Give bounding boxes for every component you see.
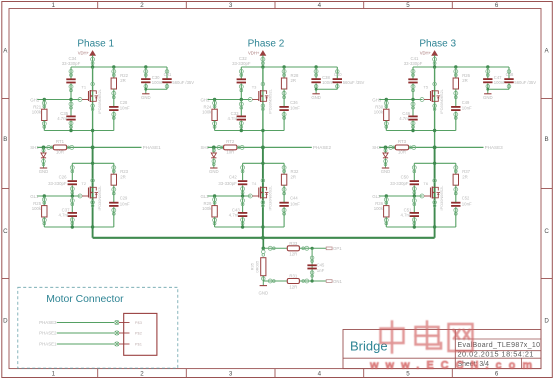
svg-text:P$3: P$3 bbox=[135, 320, 143, 325]
svg-text:2R: 2R bbox=[291, 78, 297, 83]
svg-text:33-330pF: 33-330pF bbox=[232, 61, 251, 66]
connector X1 body bbox=[124, 313, 157, 355]
wire main vertical rail (Phase 3) bbox=[434, 67, 436, 238]
wire low rail (Phase 3) bbox=[414, 162, 456, 165]
svg-text:C: C bbox=[544, 228, 549, 235]
svg-text:C26: C26 bbox=[59, 175, 67, 180]
svg-text:33-330pF: 33-330pF bbox=[390, 181, 409, 186]
svg-text:C28: C28 bbox=[120, 100, 128, 105]
svg-text:6: 6 bbox=[495, 2, 499, 9]
diode D2 (clamp) bbox=[211, 147, 216, 167]
title block row lines bbox=[343, 339, 541, 369]
svg-text:2R: 2R bbox=[120, 174, 126, 179]
wire top rail (Phase 2) bbox=[241, 65, 337, 68]
wire gate GL1 bbox=[37, 194, 82, 198]
svg-text:2R: 2R bbox=[462, 78, 468, 83]
svg-text:T4: T4 bbox=[252, 181, 257, 186]
capacitor C26 33-330pF bbox=[48, 163, 77, 196]
capacitor C46 4.7nF bbox=[399, 100, 417, 131]
svg-text:Phase 3: Phase 3 bbox=[419, 39, 456, 50]
wire PHASE1 to connector bbox=[57, 342, 130, 346]
svg-text:OP1: OP1 bbox=[333, 246, 342, 251]
wire cap ground link (Phase 2) bbox=[315, 88, 338, 91]
frame row ticks bbox=[2, 99, 553, 279]
svg-text:100k: 100k bbox=[32, 206, 42, 211]
svg-text:10nF: 10nF bbox=[120, 201, 130, 206]
svg-text:PHASE3: PHASE3 bbox=[39, 320, 57, 325]
svg-text:100k: 100k bbox=[202, 109, 212, 114]
capacitor C40 560uF/35V bbox=[333, 67, 365, 89]
ground GND (shunt) bbox=[259, 286, 269, 296]
title block box bbox=[343, 330, 541, 369]
capacitor C49 10nF bbox=[451, 89, 472, 131]
svg-text:4.7nF: 4.7nF bbox=[59, 213, 70, 218]
svg-text:2R: 2R bbox=[462, 174, 468, 179]
capacitor C52 10nF bbox=[451, 185, 472, 227]
svg-text:4: 4 bbox=[318, 2, 322, 9]
ground GND (bulk caps Phase 2) bbox=[311, 89, 321, 100]
svg-text:12R: 12R bbox=[289, 284, 297, 289]
svg-text:4.7nF: 4.7nF bbox=[229, 213, 240, 218]
capacitor C42 33-330pF bbox=[218, 163, 247, 196]
svg-text:C40: C40 bbox=[334, 72, 342, 77]
capacitor C44 10nF bbox=[279, 185, 300, 227]
svg-text:33-330pF: 33-330pF bbox=[48, 181, 67, 186]
transistor T6 (low-side MOSFET) bbox=[423, 179, 444, 211]
wire PHASE2 net bbox=[208, 146, 312, 150]
svg-text:RT3: RT3 bbox=[398, 139, 407, 144]
wire source line (Phase 2 high) bbox=[215, 129, 285, 132]
frame column labels bbox=[52, 2, 499, 377]
wire gate GH3 bbox=[379, 98, 424, 102]
resistor R26 2R bbox=[453, 67, 471, 99]
group box Motor Connector (dashed) bbox=[18, 287, 178, 368]
resistor R33 12R bbox=[287, 241, 299, 257]
wire sense top branch bbox=[263, 246, 326, 250]
svg-text:IPD30N06S2L: IPD30N06S2L bbox=[439, 88, 444, 114]
svg-text:IPD30N06S2L: IPD30N06S2L bbox=[97, 88, 102, 114]
svg-text:2: 2 bbox=[140, 2, 144, 9]
svg-text:C50: C50 bbox=[401, 175, 409, 180]
svg-text:www.ECCN.com: www.ECCN.com bbox=[369, 360, 539, 372]
resistor RT3 10R bbox=[389, 139, 416, 154]
resistor R35 shunt 0R005 bbox=[250, 250, 266, 280]
svg-text:560uF /35V: 560uF /35V bbox=[172, 80, 194, 85]
title block divider vertical bbox=[454, 330, 456, 369]
svg-text:T3: T3 bbox=[252, 84, 257, 89]
svg-text:0R005: 0R005 bbox=[254, 260, 259, 273]
svg-text:GND: GND bbox=[381, 169, 391, 174]
resistor RT1 10R bbox=[47, 139, 74, 154]
svg-text:1: 1 bbox=[52, 370, 56, 377]
svg-text:1: 1 bbox=[52, 2, 56, 9]
wire source line (Phase 3 high) bbox=[386, 129, 456, 132]
terminal OP1 bbox=[326, 246, 342, 251]
capacitor C36 10nF bbox=[279, 89, 300, 131]
svg-text:12R: 12R bbox=[289, 252, 297, 257]
capacitor C48 560uF/35V bbox=[504, 67, 536, 89]
svg-text:4: 4 bbox=[318, 370, 322, 377]
transistor T1 (high-side MOSFET) bbox=[81, 82, 102, 114]
svg-text:IPD30N06S2L: IPD30N06S2L bbox=[439, 185, 444, 211]
wire gate GH2 bbox=[208, 98, 253, 102]
wire PHASE3 to connector bbox=[57, 320, 130, 324]
wire source line (Phase 3 low) bbox=[386, 225, 456, 228]
capacitor C28 10nF bbox=[109, 89, 130, 131]
svg-text:RT1: RT1 bbox=[56, 139, 65, 144]
capacitor C30 100nF bbox=[141, 67, 164, 89]
ground GND (diode Phase 1) bbox=[40, 167, 47, 169]
svg-text:5: 5 bbox=[406, 2, 410, 9]
svg-text:10nF: 10nF bbox=[462, 106, 472, 111]
wire low rail (Phase 2) bbox=[243, 162, 285, 165]
svg-text:C: C bbox=[3, 228, 8, 235]
svg-text:1nF: 1nF bbox=[317, 268, 325, 273]
svg-text:GND: GND bbox=[141, 95, 151, 100]
wire sense mid branch bbox=[311, 248, 313, 281]
wire gate GL2 bbox=[208, 194, 253, 198]
supply VDH+ (Phase 2) bbox=[248, 51, 266, 67]
svg-text:100k: 100k bbox=[374, 109, 384, 114]
svg-text:100nF: 100nF bbox=[152, 80, 164, 85]
wire source line (Phase 2 low) bbox=[215, 225, 285, 228]
svg-text:T2: T2 bbox=[81, 181, 86, 186]
resistor RT2 10R bbox=[217, 139, 244, 154]
wire cap ground link (Phase 3) bbox=[486, 88, 509, 91]
svg-text:D: D bbox=[3, 318, 8, 325]
svg-text:C45: C45 bbox=[317, 262, 325, 267]
wire PHASE2 to connector bbox=[57, 331, 130, 335]
supply VDH+ (Phase 3) bbox=[420, 51, 438, 67]
svg-text:3: 3 bbox=[229, 2, 233, 9]
wire main vertical rail (Phase 1) bbox=[92, 67, 94, 238]
svg-text:C31: C31 bbox=[164, 72, 172, 77]
frame row labels bbox=[3, 48, 549, 325]
svg-text:4.7nF: 4.7nF bbox=[401, 213, 412, 218]
svg-text:10nF: 10nF bbox=[290, 201, 300, 206]
svg-text:PHASE1: PHASE1 bbox=[39, 342, 57, 347]
svg-text:R33: R33 bbox=[289, 241, 297, 246]
wire gate GL3 bbox=[379, 194, 424, 198]
resistor R37 2R bbox=[453, 163, 471, 195]
junction bus / phase2 bbox=[261, 236, 265, 240]
svg-text:T6: T6 bbox=[423, 181, 428, 186]
svg-text:10nF: 10nF bbox=[290, 106, 300, 111]
svg-text:10R: 10R bbox=[226, 149, 234, 154]
transistor T4 (low-side MOSFET) bbox=[252, 179, 273, 211]
svg-text:T1: T1 bbox=[81, 84, 86, 89]
capacitor C37 4.7nF bbox=[59, 196, 78, 227]
svg-text:RT2: RT2 bbox=[226, 139, 235, 144]
svg-text:Motor Connector: Motor Connector bbox=[46, 294, 124, 305]
svg-text:C44: C44 bbox=[290, 196, 298, 201]
wire main vertical rail (Phase 2) bbox=[262, 67, 264, 238]
svg-text:GND: GND bbox=[259, 291, 269, 296]
svg-text:IPD30N06S2L: IPD30N06S2L bbox=[267, 185, 272, 211]
svg-text:3: 3 bbox=[229, 370, 233, 377]
svg-text:C29: C29 bbox=[120, 196, 128, 201]
svg-text:Phase 1: Phase 1 bbox=[77, 39, 114, 50]
ground GND (diode Phase 2) bbox=[210, 167, 217, 169]
capacitor C31 560uF/35V bbox=[162, 67, 194, 89]
svg-text:10R: 10R bbox=[56, 149, 64, 154]
svg-text:33-330pF: 33-330pF bbox=[62, 61, 81, 66]
svg-text:PHASE2: PHASE2 bbox=[39, 331, 57, 336]
resistor R25 100k bbox=[32, 196, 47, 227]
wire source line (Phase 1 high) bbox=[44, 129, 114, 132]
svg-text:ON1: ON1 bbox=[333, 279, 342, 284]
svg-text:C36: C36 bbox=[290, 100, 298, 105]
svg-text:D: D bbox=[544, 318, 549, 325]
svg-text:B: B bbox=[3, 136, 7, 143]
resistor R31 12R bbox=[287, 274, 299, 290]
capacitor C32 33-330pF bbox=[232, 56, 251, 99]
capacitor C43 4.7nF bbox=[229, 196, 247, 227]
resistor R21 100k bbox=[32, 100, 47, 131]
resistor R32 2R bbox=[281, 163, 299, 195]
svg-text:GND: GND bbox=[209, 169, 219, 174]
svg-text:33-330pF: 33-330pF bbox=[404, 61, 423, 66]
svg-text:10R: 10R bbox=[398, 149, 406, 154]
svg-text:IPD30N06S2L: IPD30N06S2L bbox=[267, 88, 272, 114]
svg-text:4.7nF: 4.7nF bbox=[228, 116, 239, 121]
transistor T5 (high-side MOSFET) bbox=[423, 82, 444, 114]
wire PHASE3 net bbox=[379, 146, 483, 150]
svg-text:100k: 100k bbox=[202, 206, 212, 211]
terminal ON1 bbox=[326, 279, 342, 284]
wire PHASE1 net bbox=[37, 146, 141, 150]
capacitor C38 100nF bbox=[311, 67, 334, 89]
svg-text:100k: 100k bbox=[374, 206, 384, 211]
wire shunt to ground bbox=[262, 276, 264, 286]
wire low rail (Phase 1) bbox=[72, 162, 114, 165]
ground GND (bulk caps Phase 3) bbox=[483, 89, 493, 100]
svg-text:GND: GND bbox=[311, 95, 321, 100]
transistor T2 (low-side MOSFET) bbox=[81, 179, 102, 211]
wire top rail (Phase 3) bbox=[413, 65, 509, 68]
ground GND (diode Phase 3) bbox=[382, 167, 389, 169]
wire bus to shunt bbox=[262, 238, 266, 250]
svg-text:IPD30N06S2L: IPD30N06S2L bbox=[97, 185, 102, 211]
wire bottom bus (source rail) bbox=[93, 237, 435, 239]
capacitor C51 4.7nF bbox=[401, 196, 420, 227]
supply VDH+ (Phase 1) bbox=[78, 51, 96, 67]
resistor R24 100k bbox=[202, 100, 217, 131]
svg-text:2R: 2R bbox=[291, 174, 297, 179]
svg-text:T5: T5 bbox=[423, 84, 428, 89]
resistor R22 2R bbox=[111, 67, 129, 99]
svg-text:100nF: 100nF bbox=[322, 80, 334, 85]
svg-text:560uF /35V: 560uF /35V bbox=[343, 80, 365, 85]
resistor R30 100k bbox=[374, 100, 389, 131]
svg-text:EvalBoard_TLE987x_10: EvalBoard_TLE987x_10 bbox=[458, 342, 541, 349]
svg-text:2: 2 bbox=[140, 370, 144, 377]
svg-text:C52: C52 bbox=[462, 196, 470, 201]
wire gate GH1 bbox=[37, 98, 82, 102]
svg-text:560uF /35V: 560uF /35V bbox=[514, 80, 536, 85]
svg-text:P$1: P$1 bbox=[135, 342, 143, 347]
svg-text:GND: GND bbox=[483, 95, 493, 100]
svg-text:C42: C42 bbox=[229, 175, 237, 180]
capacitor C35 4.7nF bbox=[57, 100, 76, 131]
svg-text:4.7nF: 4.7nF bbox=[57, 116, 68, 121]
svg-text:GND: GND bbox=[39, 169, 49, 174]
svg-text:C48: C48 bbox=[506, 72, 514, 77]
svg-text:4.7nF: 4.7nF bbox=[399, 116, 410, 121]
svg-text:PHASE1: PHASE1 bbox=[143, 145, 162, 150]
svg-text:10nF: 10nF bbox=[462, 201, 472, 206]
svg-text:100nF: 100nF bbox=[494, 80, 506, 85]
svg-text:33-330pF: 33-330pF bbox=[218, 181, 237, 186]
wire cap ground link (Phase 1) bbox=[144, 88, 167, 91]
svg-text:VDH+: VDH+ bbox=[248, 51, 260, 56]
svg-text:2R: 2R bbox=[120, 78, 126, 83]
transistor T3 (high-side MOSFET) bbox=[252, 82, 273, 114]
svg-text:B: B bbox=[545, 136, 549, 143]
wire source line (Phase 1 low) bbox=[44, 225, 114, 228]
capacitor C50 33-330pF bbox=[390, 163, 419, 196]
capacitor C41 33-330pF bbox=[404, 56, 423, 99]
capacitor C47 100nF bbox=[483, 67, 506, 89]
resistor R29 100k bbox=[202, 196, 217, 227]
watermark Chinese characters (drawn as paths) bbox=[381, 322, 473, 353]
capacitor C29 10nF bbox=[109, 185, 130, 227]
capacitor C33 4.7nF bbox=[228, 100, 247, 131]
diode D3 (clamp) bbox=[383, 147, 388, 167]
svg-text:VDH+: VDH+ bbox=[420, 51, 432, 56]
svg-text:R31: R31 bbox=[289, 274, 297, 279]
svg-text:C49: C49 bbox=[462, 100, 470, 105]
svg-text:100k: 100k bbox=[32, 109, 42, 114]
svg-text:Phase 2: Phase 2 bbox=[248, 39, 285, 50]
svg-text:VDH+: VDH+ bbox=[78, 51, 90, 56]
wire sense bottom branch bbox=[263, 279, 326, 283]
capacitor C45 1nF bbox=[307, 256, 325, 277]
ground GND (bulk caps Phase 1) bbox=[141, 89, 151, 100]
svg-text:PHASE2: PHASE2 bbox=[313, 145, 332, 150]
svg-text:PHASE3: PHASE3 bbox=[485, 145, 504, 150]
diode D1 (clamp) bbox=[41, 147, 46, 167]
svg-text:Bridge: Bridge bbox=[350, 338, 388, 353]
resistor R23 2R bbox=[111, 163, 129, 195]
resistor R36 100k bbox=[374, 196, 389, 227]
resistor R28 2R bbox=[281, 67, 299, 99]
svg-text:10nF: 10nF bbox=[120, 106, 130, 111]
capacitor C34 33-330pF bbox=[62, 56, 81, 99]
wire top rail (Phase 1) bbox=[71, 65, 167, 68]
svg-text:P$2: P$2 bbox=[135, 331, 143, 336]
frame column ticks bbox=[98, 2, 453, 378]
